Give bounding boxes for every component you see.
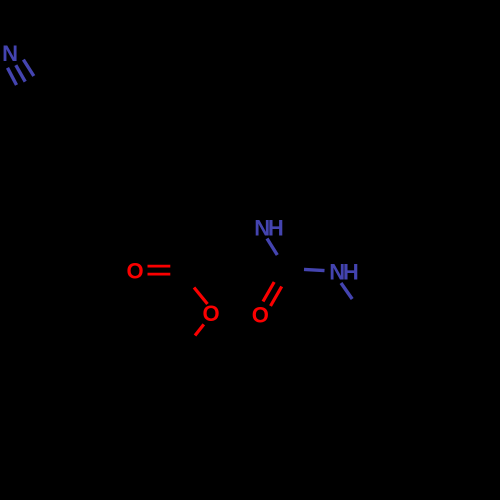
svg-text:N: N [2, 41, 18, 66]
svg-text:O: O [252, 302, 269, 327]
svg-text:NH: NH [254, 216, 284, 241]
svg-text:NH: NH [329, 260, 359, 285]
svg-text:O: O [126, 259, 143, 284]
svg-text:O: O [202, 301, 219, 326]
